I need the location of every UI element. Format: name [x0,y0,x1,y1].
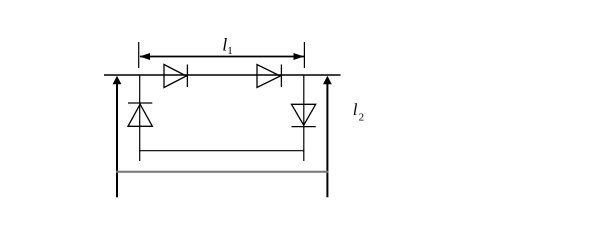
svg-text:l: l [353,100,358,119]
svg-text:1: 1 [227,45,233,57]
svg-text:2: 2 [359,111,365,123]
